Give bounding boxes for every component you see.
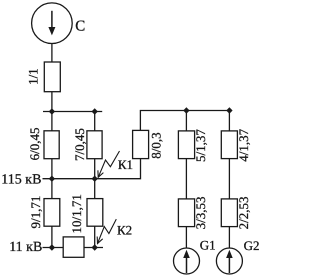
wire bus to 6/0,45 — [51, 112, 53, 131]
svg-text:2/2,53: 2/2,53 — [236, 196, 251, 229]
resistor 9/1,71 — [44, 199, 60, 227]
wire 9/1,71 to 11kV bus — [51, 226, 53, 247]
svg-text:8/0,3: 8/0,3 — [148, 132, 163, 158]
fault arrow K1 — [98, 151, 120, 177]
top-left bus — [43, 111, 102, 113]
wire C to 1/1 — [51, 44, 53, 63]
wire bus to 7/0,45 — [94, 112, 96, 131]
source C circle — [32, 3, 73, 44]
node: 115kV bus / 6 junction — [49, 176, 55, 182]
svg-text:5/1,37: 5/1,37 — [193, 129, 208, 162]
wire bus to 5/1,37 — [185, 111, 187, 131]
wire 115kV bus to 10/1,71 — [94, 179, 96, 199]
svg-text:7/0,45: 7/0,45 — [72, 128, 87, 161]
wire 115kV bus to 9/1,71 — [51, 179, 53, 199]
top-right bus — [140, 111, 230, 131]
resistor 2/2,53 — [221, 199, 237, 227]
transformer 1/1 — [44, 62, 60, 92]
svg-text:9/1,71: 9/1,71 — [28, 196, 43, 229]
svg-text:6/0,45: 6/0,45 — [27, 127, 42, 160]
wire 8/0,3 to 115kV node — [95, 159, 141, 179]
svg-text:К1: К1 — [118, 157, 133, 172]
wire 1/1 to top bus — [51, 92, 53, 112]
resistor 6/0,45 — [44, 131, 59, 159]
node: top bus / 1/1 junction — [49, 108, 55, 114]
resistor 7/0,45 — [87, 131, 102, 159]
wire 6/0,45 to 115kV bus — [51, 159, 53, 179]
node: top bus / 5 junction — [183, 107, 189, 113]
resistor 8/0,3 — [133, 130, 149, 158]
115kV bus — [43, 178, 95, 180]
wire 3/3,53 to G1 — [185, 227, 187, 249]
wire 10/1,71 to 11kV bus — [94, 226, 96, 247]
node: 11kV bus / 10 junction (K2) — [92, 244, 98, 250]
svg-text:G2: G2 — [244, 238, 260, 253]
node: 11kV bus / 9 junction — [49, 244, 55, 250]
wire bus to 4/1,37 — [228, 111, 230, 131]
node: top bus / 7 junction — [92, 108, 98, 114]
generator G2 arrow — [226, 250, 233, 273]
generator G1 arrow — [183, 250, 190, 273]
svg-text:С: С — [75, 18, 85, 34]
resistor 3/3,53 — [178, 199, 194, 227]
wire 5/1,37 to 3/3,53 — [185, 159, 187, 199]
svg-text:К2: К2 — [117, 223, 132, 238]
source C arrow — [48, 11, 55, 36]
11kV bus right segment — [84, 247, 103, 249]
wire 7/0,45 to 115kV bus — [94, 159, 96, 179]
node: 115kV bus / 7 junction (K1) — [92, 176, 98, 182]
svg-text:115 кВ: 115 кВ — [1, 172, 41, 187]
wire 4/1,37 to 2/2,53 — [228, 159, 230, 199]
resistor 10/1,71 — [87, 199, 103, 227]
svg-text:1/1: 1/1 — [26, 68, 41, 85]
svg-text:11 кВ: 11 кВ — [9, 240, 42, 255]
resistor 4/1,37 — [221, 131, 237, 159]
svg-text:4/1,37: 4/1,37 — [236, 128, 251, 161]
wire 2/2,53 to G2 — [228, 227, 230, 249]
node: top bus / 4 junction — [226, 107, 232, 113]
resistor 5/1,37 — [178, 131, 194, 159]
fault arrow K2 — [97, 219, 116, 243]
svg-text:10/1,71: 10/1,71 — [69, 194, 84, 233]
svg-text:G1: G1 — [200, 238, 216, 253]
11kV bus left segment — [43, 247, 64, 249]
sectional reactor — [63, 237, 84, 257]
generator G2 circle — [216, 248, 242, 274]
generator G1 circle — [174, 248, 200, 274]
svg-text:3/3,53: 3/3,53 — [193, 196, 208, 229]
